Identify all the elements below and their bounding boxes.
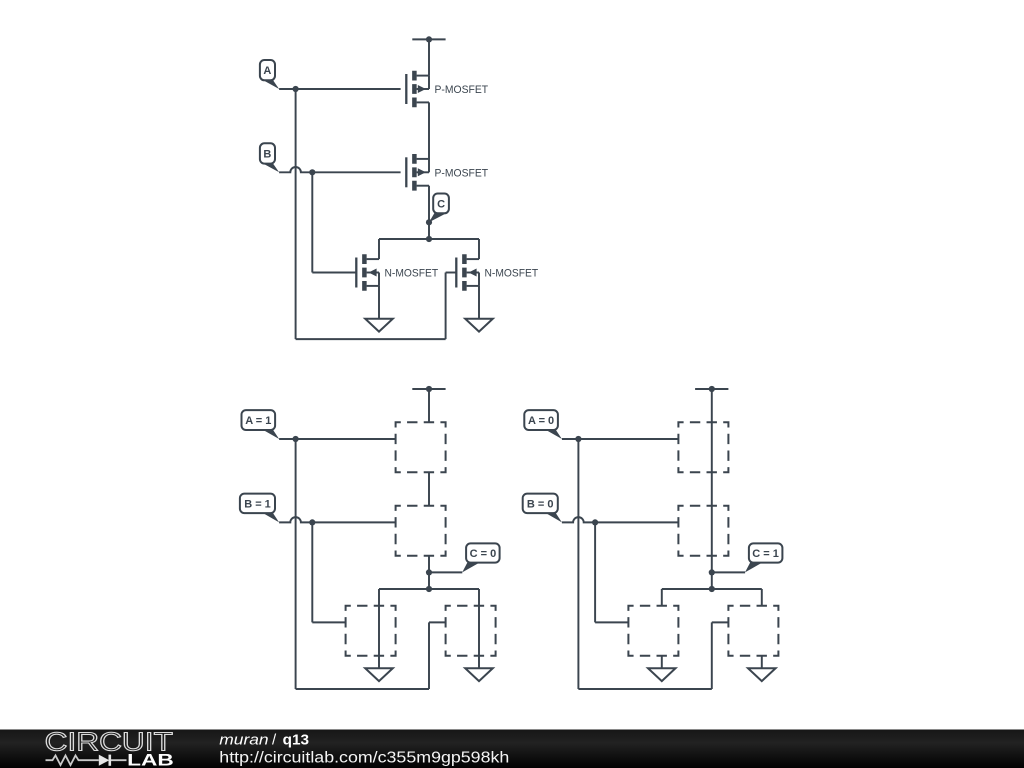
node C junction left case — [426, 569, 432, 575]
ground GND M4 — [465, 319, 493, 332]
node B junction right case — [592, 519, 598, 525]
svg-text:C = 1: C = 1 — [752, 548, 779, 560]
wire left case C stub wire — [429, 571, 462, 573]
flag A — [260, 60, 279, 89]
wire right case C stub wire — [712, 571, 745, 573]
dashed box right case P switch 2 — [678, 506, 728, 556]
wire M3 source to ground — [378, 286, 380, 319]
node C junction right case — [709, 569, 715, 575]
ground GND left right case — [648, 668, 676, 681]
node A junction — [293, 86, 299, 92]
CircuitLab logo resistor-diode glyph — [46, 755, 127, 766]
dashed box right case N switch right — [728, 606, 778, 656]
ground GND M3 — [365, 319, 393, 332]
svg-text:C = 0: C = 0 — [470, 548, 497, 560]
wire left case net A down — [295, 439, 297, 689]
wire right case right N box to ground — [761, 656, 763, 669]
wire A to M1 gate — [279, 88, 401, 90]
wire net B down — [311, 172, 313, 272]
rail junction left case — [426, 586, 432, 592]
wire net B to M3 gate — [312, 272, 356, 274]
svg-text:LAB: LAB — [127, 751, 174, 768]
wire output rail — [379, 238, 479, 240]
svg-text:P-MOSFET: P-MOSFET — [435, 84, 489, 96]
ground GND left left case — [365, 668, 393, 681]
wire B to M2 gate (hops over net A) — [279, 167, 401, 172]
wire right case net B down — [594, 522, 596, 622]
wire left case net A to right N box — [429, 621, 446, 623]
svg-text:P-MOSFET: P-MOSFET — [435, 167, 489, 179]
flag B — [260, 143, 279, 172]
wire right case rail to right N box — [761, 589, 763, 606]
wire right case output rail — [662, 588, 762, 590]
wire M4 source to ground — [478, 286, 480, 319]
wire left case net B to left N box — [312, 621, 345, 623]
svg-text:http://circuitlab.com/c355m9gp: http://circuitlab.com/c355m9gp598kh — [219, 749, 509, 766]
wire net A bottom run — [296, 338, 446, 340]
wire left case right N branch through switch — [478, 589, 480, 668]
wire right case net A down — [577, 439, 579, 689]
wire left case P1 box to P2 box — [428, 472, 430, 505]
node A junction right case — [575, 436, 581, 442]
P-MOSFET M1 — [406, 71, 488, 108]
svg-text:muran: muran — [219, 731, 268, 748]
wire right case VDD through P switches to C — [711, 389, 713, 589]
node C rail junction — [426, 236, 432, 242]
footer bar — [0, 730, 1024, 768]
wire right case A wire to P1 box — [562, 438, 679, 440]
svg-text:N-MOSFET: N-MOSFET — [485, 268, 539, 280]
wire right case net A to right N box — [712, 621, 729, 623]
wire left case A wire to P1 box — [279, 438, 396, 440]
dashed box right case N switch left — [628, 606, 678, 656]
flag A = 1 left case — [242, 410, 280, 439]
wire net A to M4 gate — [446, 272, 457, 274]
wire rail to M3 drain — [378, 239, 380, 259]
wire left case net A bottom run — [296, 688, 429, 690]
flag C = 1 right case — [745, 543, 782, 572]
wire left case VDD to P1 box — [428, 389, 430, 422]
dashed box right case P switch 1 — [678, 422, 728, 472]
svg-text:N-MOSFET: N-MOSFET — [385, 268, 439, 280]
svg-text:B = 1: B = 1 — [244, 498, 271, 510]
wire right case net A bottom run — [578, 688, 711, 690]
N-MOSFET M3 — [356, 254, 438, 291]
flag B = 1 left case — [240, 494, 279, 523]
wire net A down — [295, 89, 297, 339]
N-MOSFET M4 — [456, 254, 538, 291]
flag C = 0 left case — [462, 543, 499, 572]
flag C — [429, 194, 449, 223]
svg-text:A = 0: A = 0 — [528, 415, 554, 427]
wire right case rail to left N box — [661, 589, 663, 606]
wire left case left N branch through switch — [378, 589, 380, 668]
wire rail to M4 drain — [478, 239, 480, 259]
wire VDD to M1 source — [428, 39, 430, 75]
power rail VDD right case — [695, 386, 728, 392]
node A junction left case — [293, 436, 299, 442]
svg-text:A: A — [263, 65, 271, 77]
wire left case output rail — [379, 588, 479, 590]
dashed box left case P switch 1 — [396, 422, 446, 472]
wire right case B wire to P2 box (hop) — [562, 517, 679, 522]
svg-text:A = 1: A = 1 — [245, 415, 271, 427]
wire M1 drain to M2 source — [428, 102, 430, 159]
svg-text:B = 0: B = 0 — [527, 498, 554, 510]
ground GND right right case — [748, 668, 776, 681]
P-MOSFET M2 — [406, 154, 488, 191]
svg-text:q13: q13 — [283, 731, 309, 748]
node B junction left case — [309, 519, 315, 525]
wire right case net A up leg — [711, 622, 713, 689]
wire left case net A up leg — [428, 622, 430, 689]
node C junction — [426, 219, 432, 225]
power rail VDD left case — [412, 386, 445, 392]
dashed box left case N switch right — [446, 606, 496, 656]
wire left case net B down — [311, 522, 313, 622]
wire right case left N box to ground — [661, 656, 663, 669]
flag A = 0 right case — [524, 410, 562, 439]
node B junction — [309, 169, 315, 175]
wire left case P2 box to C — [428, 556, 430, 589]
svg-text:C: C — [437, 198, 445, 210]
flag B = 0 right case — [523, 494, 562, 523]
ground GND right left case — [465, 668, 493, 681]
wire right case net B to left N box — [595, 621, 628, 623]
dashed box left case N switch left — [346, 606, 396, 656]
rail junction right case — [709, 586, 715, 592]
wire net A up leg — [445, 273, 447, 340]
wire M2 drain to output rail — [428, 186, 430, 239]
wire left case B wire to P2 box (hop) — [279, 517, 396, 522]
svg-text:B: B — [263, 149, 271, 161]
dashed box left case P switch 2 — [396, 506, 446, 556]
power rail VDD top — [412, 36, 445, 42]
